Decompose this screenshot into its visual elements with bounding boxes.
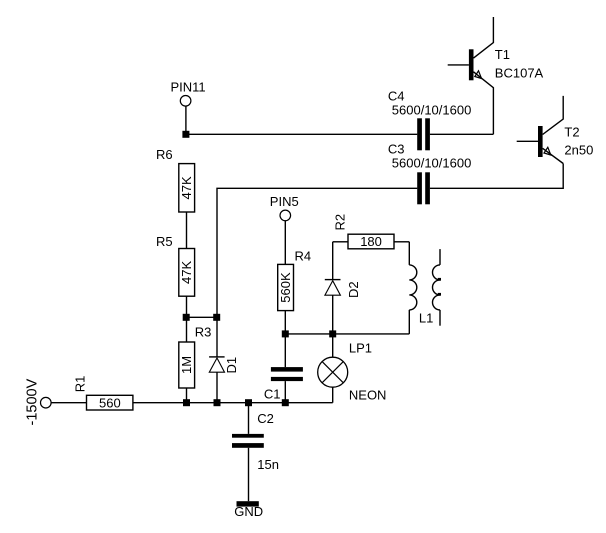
wire bottom rail [133, 402, 333, 404]
capacitor C2 [232, 403, 279, 502]
capacitor C1 [264, 334, 303, 403]
svg-text:C1: C1 [264, 386, 281, 401]
svg-text:T2: T2 [564, 125, 579, 140]
wire R6 to R5 [186, 212, 188, 249]
terminal -1500V [25, 378, 52, 425]
svg-text:BC107A: BC107A [495, 66, 544, 81]
capacitor C3 [388, 142, 471, 205]
svg-text:2n50: 2n50 [564, 142, 593, 157]
resistor R6 [156, 147, 195, 212]
wire C4 to T1 emitter [430, 133, 494, 135]
diode D1 [209, 317, 239, 402]
wire R4 to node [284, 311, 286, 334]
transistor T1 [448, 17, 544, 134]
pin PIN11 [171, 80, 206, 107]
svg-text:GND: GND [234, 504, 263, 519]
svg-text:R4: R4 [295, 248, 312, 263]
svg-text:R1: R1 [73, 376, 88, 393]
wire C3 net left (corner to C3) [217, 188, 417, 317]
svg-text:47K: 47K [179, 261, 194, 284]
resistor R2 [333, 214, 410, 249]
svg-text:180: 180 [360, 234, 382, 249]
node junction at R6 top [182, 131, 189, 138]
resistor R1 [73, 376, 133, 411]
svg-text:C4: C4 [388, 89, 405, 104]
node junction R3 bottom [183, 399, 190, 406]
wire terminal to R1 [51, 402, 87, 404]
wire C3 to T2 emitter [430, 164, 563, 189]
svg-text:1M: 1M [179, 356, 194, 374]
svg-text:L1: L1 [419, 310, 433, 325]
svg-text:C3: C3 [388, 142, 405, 157]
wire R3 to bottom rail [186, 388, 188, 403]
svg-text:R5: R5 [156, 234, 173, 249]
svg-text:D1: D1 [224, 357, 239, 374]
transistor T2 [517, 96, 594, 164]
svg-text:5600/10/1600: 5600/10/1600 [392, 155, 472, 170]
node junction D1 top [213, 314, 220, 321]
svg-text:560: 560 [99, 395, 121, 410]
node junction C1 bottom [282, 399, 289, 406]
inductor L1 left winding [409, 242, 433, 334]
node junction D1 bottom [214, 399, 221, 406]
wire mid rail [285, 333, 409, 335]
svg-text:R2: R2 [333, 214, 348, 231]
node junction C2 top [245, 399, 252, 406]
node junction R5/R3 [183, 314, 190, 321]
lamp LP1 [318, 334, 387, 403]
svg-text:PIN5: PIN5 [270, 194, 299, 209]
inductor L1 right winding [433, 249, 442, 326]
resistor R3 [179, 325, 212, 388]
diode D2 [325, 242, 361, 334]
svg-text:LP1: LP1 [349, 341, 372, 356]
wire R5 to node [186, 296, 188, 317]
svg-text:560K: 560K [278, 272, 293, 303]
svg-text:-1500V: -1500V [25, 378, 41, 425]
node junction R4/C1 [282, 330, 289, 337]
svg-text:PIN11: PIN11 [171, 80, 206, 95]
svg-text:R3: R3 [195, 325, 212, 340]
resistor R4 [278, 248, 311, 310]
svg-text:D2: D2 [346, 281, 361, 298]
svg-text:15n: 15n [257, 457, 279, 472]
wire PIN11 stub [185, 106, 187, 135]
svg-text:NEON: NEON [349, 387, 387, 402]
node junction D2/LP1 [329, 330, 336, 337]
svg-text:C2: C2 [257, 411, 274, 426]
resistor R5 [156, 234, 195, 296]
wire PIN5 to R4 [284, 220, 286, 264]
wire node to D1 node [187, 316, 218, 318]
pin PIN5 [270, 194, 299, 221]
capacitor C4 [388, 89, 471, 151]
svg-text:R6: R6 [156, 147, 173, 162]
ground GND [234, 501, 263, 519]
svg-text:47K: 47K [179, 176, 194, 199]
svg-text:T1: T1 [495, 47, 510, 62]
wire node to R3 [186, 317, 188, 342]
svg-text:5600/10/1600: 5600/10/1600 [392, 102, 472, 117]
wire C4 net left [186, 133, 417, 135]
